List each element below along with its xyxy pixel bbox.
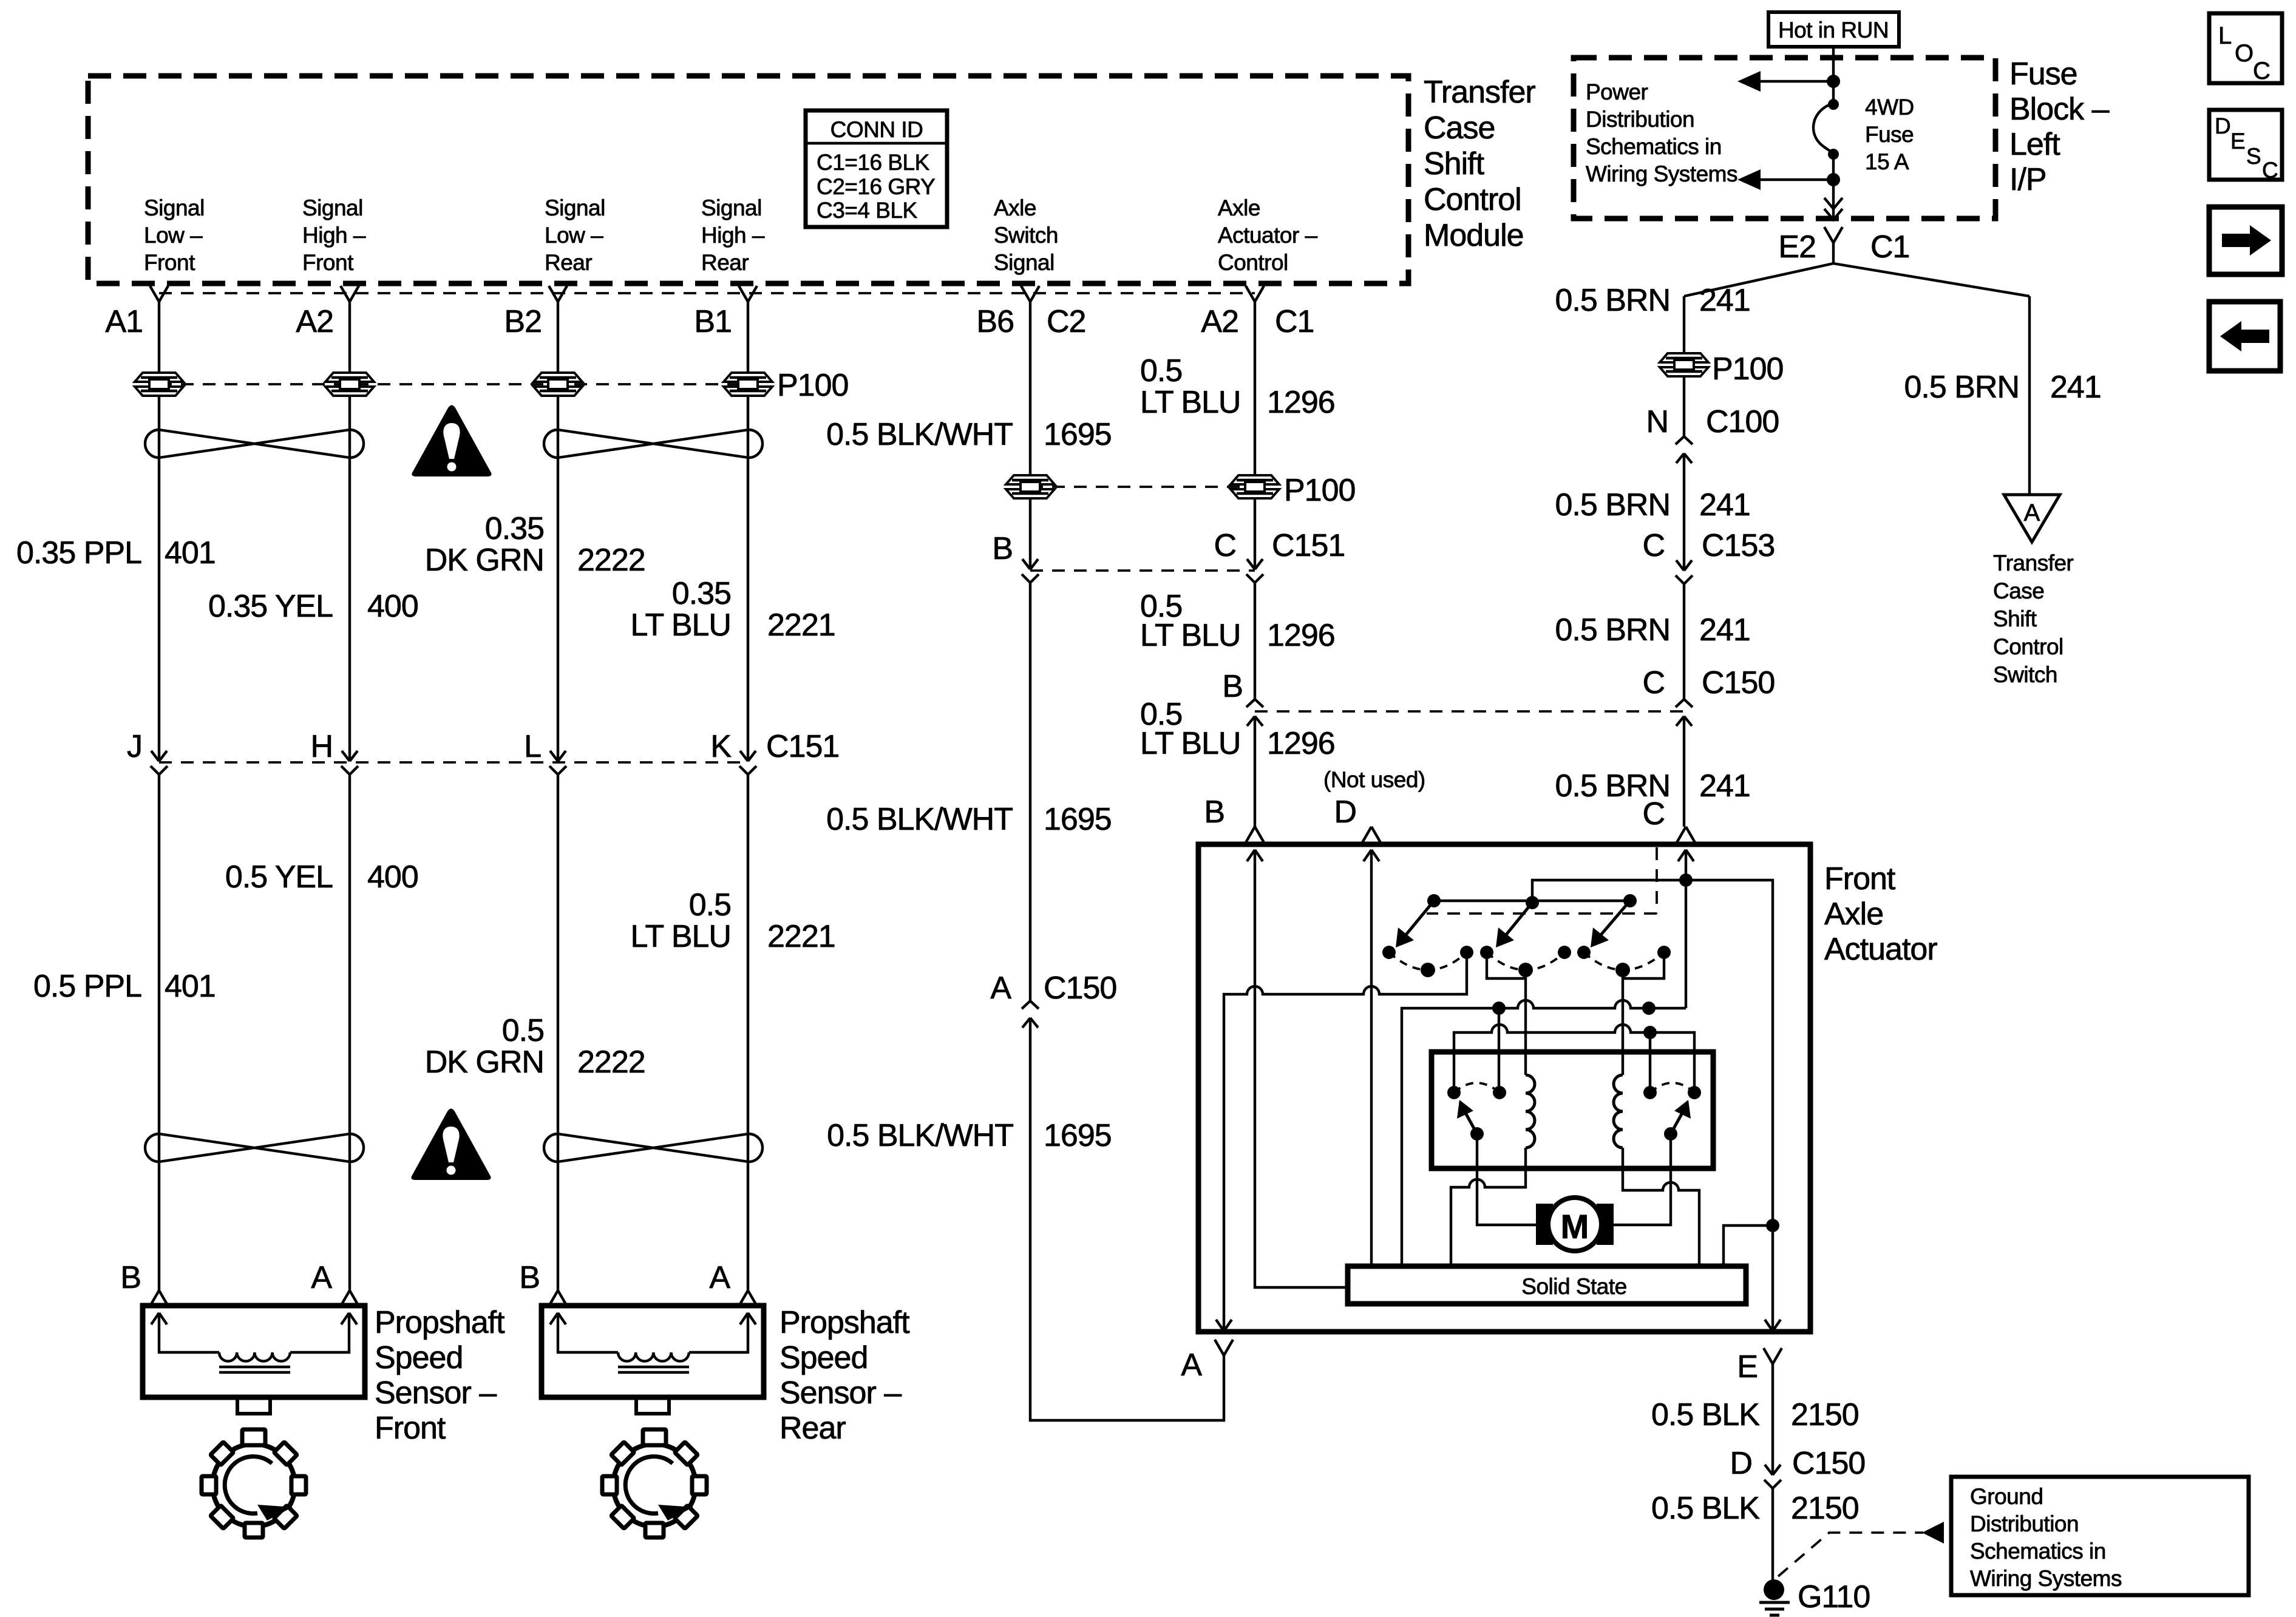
switch wiper 1: [1403, 901, 1434, 938]
twisted pair rear: [544, 430, 763, 458]
wire B2 upper: [557, 302, 559, 761]
svg-text:Signal: Signal: [701, 195, 762, 220]
ground reference dashed arrow: [1778, 1533, 1923, 1576]
svg-text:1695: 1695: [1044, 1118, 1112, 1153]
connector P100 on BRN: [1660, 353, 1708, 376]
svg-text:A: A: [1181, 1347, 1202, 1383]
tone wheel gear front: [202, 1429, 306, 1537]
svg-text:Wiring Systems: Wiring Systems: [1586, 161, 1737, 186]
wire A2 C1 LT BLU upper: [1254, 302, 1256, 476]
svg-text:0.5 YEL: 0.5 YEL: [225, 859, 333, 895]
node inner contact 1a: [1447, 1086, 1461, 1099]
svg-text:241: 241: [1699, 768, 1750, 804]
DESC reference box: [2209, 110, 2282, 183]
svg-text:Rear: Rear: [701, 250, 749, 275]
wire B1 upper: [747, 302, 749, 761]
connector C151 dashed face line: [159, 761, 748, 764]
svg-text:(Not used): (Not used): [1323, 767, 1425, 792]
prev page arrow box: [2209, 302, 2280, 371]
node contact a: [1382, 946, 1396, 959]
next page arrow box: [2209, 207, 2282, 274]
connector A C150: [1022, 1001, 1039, 1028]
svg-text:B: B: [992, 531, 1013, 566]
connector P100 dashed face line 2: [1030, 486, 1255, 488]
svg-text:2150: 2150: [1791, 1397, 1859, 1432]
node inner pivot 2: [1664, 1127, 1677, 1141]
svg-text:C: C: [1642, 528, 1665, 563]
pin fork A2: [341, 286, 359, 302]
svg-text:Signal: Signal: [302, 195, 363, 220]
svg-text:0.5: 0.5: [689, 887, 731, 923]
svg-text:Distribution: Distribution: [1970, 1511, 2079, 1536]
svg-text:Transfer: Transfer: [1993, 551, 2074, 575]
wire BRN right branch: [2028, 296, 2031, 495]
wire switch feed top: [1532, 880, 1773, 1225]
connector C C153: [1676, 560, 1693, 584]
mechanical link dashed: [1427, 847, 1657, 914]
svg-text:LT BLU: LT BLU: [631, 919, 732, 954]
wire to G110: [1771, 1488, 1774, 1581]
wire BRN left branch: [1683, 296, 1685, 354]
svg-text:G110: G110: [1798, 1579, 1870, 1615]
svg-text:O: O: [2235, 40, 2254, 67]
svg-text:C150: C150: [1702, 665, 1775, 700]
wire B6 C2 BLK/WHT upper: [1029, 302, 1031, 476]
svg-text:Solid State: Solid State: [1521, 1274, 1626, 1299]
svg-text:DK GRN: DK GRN: [425, 1045, 544, 1080]
svg-text:Propshaft: Propshaft: [375, 1305, 505, 1340]
wire E to ground: [1771, 1364, 1774, 1475]
node wiper pivot 2: [1526, 896, 1539, 909]
svg-text:Power: Power: [1586, 80, 1648, 104]
svg-text:Left: Left: [2009, 127, 2060, 162]
svg-text:C151: C151: [1272, 528, 1345, 563]
connector H: [341, 751, 358, 775]
svg-text:H: H: [310, 729, 333, 764]
svg-text:1296: 1296: [1267, 618, 1335, 653]
svg-text:0.5: 0.5: [502, 1013, 544, 1048]
wire contact bus drop 2: [1649, 1032, 1651, 1093]
svg-text:C150: C150: [1044, 971, 1116, 1006]
CONN ID box: [806, 110, 947, 227]
svg-text:Sensor –: Sensor –: [375, 1375, 497, 1411]
svg-text:B: B: [1204, 795, 1224, 830]
node contact e: [1577, 946, 1591, 959]
node inner contact 1b: [1493, 1086, 1506, 1099]
svg-text:Actuator: Actuator: [1824, 932, 1937, 967]
actuator exit fork E: [1764, 1348, 1782, 1364]
actuator pin arrow C: [1678, 850, 1694, 880]
svg-text:C: C: [2253, 58, 2271, 84]
wire pivot 2 to motor: [1614, 1134, 1671, 1225]
node junction: [1827, 173, 1840, 186]
dashed contact arc 1: [1389, 952, 1467, 970]
node wiper pivot 1: [1427, 894, 1441, 907]
Hot in RUN box: [1768, 12, 1899, 47]
svg-text:0.5 BLK/WHT: 0.5 BLK/WHT: [827, 1118, 1013, 1153]
svg-text:0.5 BRN: 0.5 BRN: [1555, 283, 1670, 318]
svg-text:Distribution: Distribution: [1586, 107, 1694, 132]
connector C C151: [1246, 559, 1263, 583]
wire below fuse: [1832, 154, 1835, 219]
inductor coil 1: [1526, 1075, 1535, 1148]
svg-text:P100: P100: [1284, 473, 1355, 508]
svg-text:Control: Control: [1424, 182, 1521, 217]
svg-text:2221: 2221: [767, 608, 835, 643]
node cross link junction: [1643, 1026, 1657, 1039]
svg-text:C153: C153: [1702, 528, 1775, 563]
svg-text:Propshaft: Propshaft: [779, 1305, 910, 1340]
twisted pair front 2: [145, 1134, 364, 1162]
wire coil 2 bottom to solid state: [1623, 1148, 1699, 1266]
dashed arc inner 1: [1454, 1083, 1500, 1093]
wire BLK/WHT mid: [1029, 498, 1031, 569]
node contact b: [1460, 946, 1473, 959]
svg-text:0.5 BRN: 0.5 BRN: [1904, 370, 2019, 405]
svg-text:0.35: 0.35: [672, 576, 731, 611]
svg-text:Low –: Low –: [144, 223, 203, 248]
svg-text:Switch: Switch: [1993, 662, 2057, 687]
pin fork A2/C1: [1246, 286, 1264, 302]
svg-text:Control: Control: [1993, 634, 2063, 659]
svg-text:J: J: [127, 729, 142, 764]
wire BRN: [1683, 584, 1685, 699]
wire BLK/WHT lower: [1030, 1018, 1224, 1420]
node motor junction: [1766, 1219, 1779, 1232]
svg-text:401: 401: [165, 969, 216, 1004]
svg-text:LT BLU: LT BLU: [1140, 618, 1241, 653]
propshaft speed sensor rear: [542, 1306, 764, 1414]
actuator entry fork C: [1677, 827, 1695, 842]
svg-text:Switch: Switch: [994, 223, 1058, 248]
connector N C100: [1676, 436, 1693, 463]
pin fork B2: [549, 286, 567, 302]
svg-text:400: 400: [367, 859, 418, 895]
connector P100 dashed face line: [159, 383, 748, 385]
wire wiper common bar: [1434, 900, 1630, 902]
wire common bus: [1402, 1000, 1686, 1266]
ground distribution box: [1951, 1477, 2249, 1595]
svg-text:241: 241: [1699, 487, 1750, 523]
node wiper pivot 3: [1623, 894, 1637, 907]
svg-text:C151: C151: [766, 729, 839, 764]
svg-text:B: B: [519, 1260, 540, 1295]
wire A2 upper: [348, 302, 351, 761]
fuse 4WD 15A: [1828, 99, 1839, 110]
svg-text:0.5: 0.5: [1140, 353, 1182, 388]
svg-text:2222: 2222: [577, 543, 645, 578]
svg-text:C2: C2: [1047, 304, 1085, 339]
svg-text:N: N: [1646, 404, 1668, 439]
svg-text:Axle: Axle: [994, 195, 1036, 220]
svg-text:Module: Module: [1424, 218, 1524, 253]
wire arrow left 2: [1759, 178, 1833, 181]
connector P100 on A2: [325, 373, 374, 396]
svg-text:B1: B1: [694, 304, 732, 339]
svg-text:A2: A2: [296, 304, 333, 339]
svg-text:Rear: Rear: [545, 250, 592, 275]
twisted pair rear 2: [544, 1134, 763, 1162]
dashed contact arc 3: [1584, 952, 1664, 970]
connector J: [151, 751, 168, 775]
wire A1 lower: [158, 775, 160, 1290]
svg-text:1695: 1695: [1044, 802, 1112, 837]
svg-text:400: 400: [367, 589, 418, 624]
connector P100 on B2: [534, 373, 582, 396]
node arc dot 3: [1615, 963, 1630, 977]
svg-text:I/P: I/P: [2009, 162, 2046, 197]
sensor pin fork A2: [739, 1290, 757, 1306]
svg-text:C: C: [1642, 796, 1665, 832]
node inner contact 2a: [1643, 1086, 1657, 1099]
svg-text:241: 241: [1699, 612, 1750, 648]
svg-text:Actuator –: Actuator –: [1218, 223, 1318, 248]
wire coil 2 feed: [1622, 970, 1624, 1075]
node contact f: [1657, 946, 1671, 959]
warning triangle 1: [412, 405, 491, 477]
propshaft speed sensor front: [143, 1306, 365, 1414]
svg-text:LT BLU: LT BLU: [631, 608, 732, 643]
svg-text:A1: A1: [105, 304, 143, 339]
svg-text:Front: Front: [302, 250, 354, 275]
wire A2 lower: [348, 775, 351, 1290]
svg-text:2150: 2150: [1791, 1491, 1859, 1526]
switch wiper 3: [1598, 901, 1630, 938]
wire BRN: [1683, 375, 1685, 436]
svg-text:Schematics in: Schematics in: [1586, 134, 1722, 159]
wire C stem down: [1685, 880, 1687, 1008]
connector C151 dashed face line 2: [1030, 569, 1255, 572]
svg-text:B6: B6: [976, 304, 1014, 339]
svg-text:E: E: [2230, 129, 2245, 154]
wire coil 1 feed: [1524, 970, 1527, 1075]
connector C150 dashed face line: [1255, 710, 1684, 713]
Front Axle Actuator box: [1198, 844, 1810, 1332]
wire contact f link: [1623, 952, 1664, 978]
svg-text:B2: B2: [504, 304, 542, 339]
connector face dashed line under module: [159, 292, 1255, 294]
wire to E exit: [1765, 1225, 1781, 1331]
sensor pin fork B2: [549, 1290, 567, 1306]
actuator exit fork A: [1215, 1340, 1233, 1355]
svg-text:2221: 2221: [767, 919, 835, 954]
connector P100 on BLK/WHT: [1006, 475, 1055, 498]
node bus junction 1: [1492, 1002, 1506, 1015]
connector K: [739, 751, 756, 775]
twisted pair front: [145, 430, 364, 458]
wire arrow left 1: [1759, 80, 1833, 83]
node junction: [1827, 75, 1840, 88]
svg-text:K: K: [710, 729, 732, 764]
svg-text:D: D: [1334, 795, 1356, 830]
svg-text:C2=16 GRY: C2=16 GRY: [817, 174, 935, 199]
inner wiper 1: [1464, 1111, 1477, 1134]
solid state module: [1348, 1266, 1746, 1304]
svg-text:0.35 YEL: 0.35 YEL: [208, 589, 333, 624]
connector B on BLK/WHT: [1022, 559, 1039, 583]
svg-text:Case: Case: [1424, 110, 1495, 146]
pin fork B6/C2: [1021, 286, 1039, 302]
wire BLK/WHT mid2: [1029, 583, 1031, 1001]
svg-text:C: C: [2262, 158, 2278, 183]
svg-text:Front: Front: [375, 1411, 446, 1446]
svg-text:Speed: Speed: [375, 1340, 463, 1375]
svg-text:Low –: Low –: [545, 223, 603, 248]
ground G110: [1764, 1579, 1784, 1600]
svg-text:A2: A2: [1201, 304, 1238, 339]
svg-text:B: B: [120, 1260, 141, 1295]
node inner contact 2b: [1688, 1086, 1701, 1099]
fuse block dashed box: [1574, 58, 1995, 219]
switch wiper 2: [1503, 903, 1532, 938]
node arc dot 2: [1518, 963, 1533, 977]
svg-text:C1: C1: [1275, 304, 1314, 339]
svg-text:Front: Front: [1824, 861, 1896, 897]
svg-text:D: D: [1730, 1446, 1752, 1481]
svg-text:E: E: [1737, 1349, 1758, 1385]
svg-text:DK GRN: DK GRN: [425, 543, 544, 578]
svg-text:C: C: [1214, 528, 1236, 563]
svg-text:L: L: [2218, 22, 2232, 49]
svg-text:15 A: 15 A: [1865, 149, 1909, 174]
svg-text:0.5 BLK/WHT: 0.5 BLK/WHT: [826, 802, 1013, 837]
svg-text:2222: 2222: [577, 1045, 645, 1080]
svg-text:Ground: Ground: [1970, 1484, 2043, 1509]
pin fork A1: [150, 286, 168, 302]
warning triangle 2: [411, 1109, 491, 1181]
sensor pin fork A: [341, 1290, 359, 1306]
svg-text:0.5 BLK: 0.5 BLK: [1651, 1397, 1760, 1432]
wire BRN: [1683, 453, 1685, 571]
actuator entry fork B: [1246, 827, 1264, 842]
svg-text:P100: P100: [777, 368, 848, 403]
wire pivot 1 to motor: [1477, 1134, 1536, 1225]
actuator pin arrow D: [1364, 850, 1379, 1266]
svg-text:Shift: Shift: [1993, 606, 2037, 631]
svg-text:Hot in RUN: Hot in RUN: [1778, 18, 1889, 42]
svg-text:C1: C1: [1870, 229, 1909, 265]
wire cross link lower: [1454, 1025, 1694, 1093]
node contact c: [1480, 946, 1493, 959]
off-page triangle A Transfer Case Shift Control Switch: [2004, 495, 2060, 542]
wire B2 lower: [557, 775, 559, 1290]
svg-text:High –: High –: [701, 223, 765, 248]
connector B on LT BLU: [1246, 699, 1263, 726]
svg-text:Axle: Axle: [1824, 897, 1883, 932]
wire A1 upper: [158, 302, 160, 761]
svg-text:L: L: [524, 729, 541, 764]
wire split to branches: [1684, 243, 2029, 296]
svg-text:Speed: Speed: [779, 1340, 868, 1375]
svg-text:C1=16 BLK: C1=16 BLK: [817, 150, 930, 175]
connector P100 on LT BLU: [1231, 475, 1279, 498]
LOC reference box: [2209, 13, 2282, 84]
inductor coil 2: [1614, 1075, 1623, 1148]
svg-text:Transfer: Transfer: [1424, 75, 1535, 110]
svg-text:Signal: Signal: [144, 195, 205, 220]
svg-text:A: A: [990, 971, 1011, 1006]
svg-text:High –: High –: [302, 223, 366, 248]
svg-text:Schematics in: Schematics in: [1970, 1539, 2106, 1564]
fuse output chevrons: [1824, 198, 1843, 220]
wire contact b down-left to A exit: [1216, 952, 1467, 1331]
svg-text:Fuse: Fuse: [2009, 56, 2077, 92]
svg-text:0.35 PPL: 0.35 PPL: [16, 535, 141, 571]
svg-text:0.5 BLK/WHT: 0.5 BLK/WHT: [826, 417, 1013, 452]
svg-text:C: C: [1642, 665, 1665, 700]
svg-text:A: A: [2024, 500, 2040, 526]
svg-text:401: 401: [165, 535, 216, 571]
pin fork B1: [739, 286, 757, 302]
wire to solid state right: [1724, 1225, 1773, 1266]
wire LT BLU lower: [1254, 716, 1256, 827]
node arc dot 1: [1421, 963, 1435, 977]
svg-text:4WD: 4WD: [1865, 95, 1914, 120]
svg-text:241: 241: [1699, 283, 1750, 318]
svg-text:P100: P100: [1712, 351, 1783, 387]
svg-text:0.5 BRN: 0.5 BRN: [1555, 612, 1670, 648]
actuator entry fork D: [1362, 827, 1381, 842]
fuse block exit fork E2 C1: [1824, 227, 1843, 243]
svg-text:Signal: Signal: [545, 195, 605, 220]
svg-text:LT BLU: LT BLU: [1140, 385, 1241, 420]
wire coil 1 bottom to solid state: [1451, 1148, 1526, 1266]
svg-text:Shift: Shift: [1424, 146, 1485, 181]
node C junction: [1679, 873, 1693, 887]
svg-text:1296: 1296: [1267, 726, 1335, 761]
tone wheel gear rear: [602, 1429, 707, 1537]
svg-text:D: D: [2215, 114, 2230, 138]
connector L: [549, 751, 566, 775]
svg-text:1695: 1695: [1044, 417, 1112, 452]
svg-text:Control: Control: [1218, 250, 1288, 275]
wire hot feed: [1832, 47, 1835, 102]
wire contact c link: [1487, 952, 1526, 978]
dashed contact arc 2: [1487, 952, 1564, 970]
svg-text:B: B: [1222, 669, 1243, 704]
svg-text:Block –: Block –: [2009, 92, 2110, 127]
svg-text:LT BLU: LT BLU: [1140, 726, 1241, 761]
svg-text:CONN ID: CONN ID: [830, 117, 923, 142]
wire LT BLU mid: [1254, 498, 1256, 569]
connector D C150: [1764, 1465, 1781, 1488]
sensor pin fork B: [150, 1290, 168, 1306]
svg-text:Rear: Rear: [779, 1411, 846, 1446]
node bus junction 2: [1642, 1002, 1656, 1015]
actuator pin arrow B: [1247, 850, 1348, 1287]
svg-text:Signal: Signal: [994, 250, 1055, 275]
svg-text:M: M: [1561, 1207, 1589, 1246]
svg-text:C100: C100: [1706, 404, 1779, 439]
svg-text:Fuse: Fuse: [1865, 122, 1914, 147]
svg-text:0.5 BRN: 0.5 BRN: [1555, 487, 1670, 523]
node contact d: [1558, 946, 1571, 959]
wire contact bus drop 1: [1498, 1008, 1500, 1093]
connector P100 on A1: [135, 373, 183, 396]
svg-text:E2: E2: [1778, 229, 1816, 265]
svg-text:Wiring Systems: Wiring Systems: [1970, 1566, 2122, 1591]
module Transfer Case Shift Control Module dashed box: [88, 76, 1408, 283]
connector C C150: [1676, 699, 1693, 726]
inner wiper 2: [1671, 1111, 1683, 1134]
svg-text:C3=4 BLK: C3=4 BLK: [817, 198, 918, 223]
connector P100 on B1: [724, 373, 772, 396]
wire LT BLU mid2: [1254, 583, 1256, 699]
svg-text:0.35: 0.35: [485, 511, 544, 546]
svg-text:Front: Front: [144, 250, 195, 275]
svg-text:C150: C150: [1792, 1446, 1865, 1481]
motor M: [1536, 1198, 1614, 1251]
